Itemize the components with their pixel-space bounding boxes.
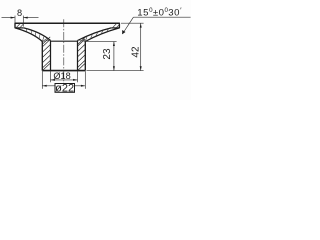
dim 22: extension lines below	[42, 71, 85, 89]
dim 8: dimension line tails	[2, 17, 15, 19]
hatching hub wall right	[78, 37, 85, 70]
left rim bottom	[15, 27, 24, 29]
right rim outer edge	[118, 23, 120, 28]
hole wall left	[50, 41, 52, 71]
right cone inner line	[78, 28, 112, 41]
svg-text:Ø18: Ø18	[53, 71, 70, 81]
hub outer wall right	[84, 42, 86, 71]
dim 23: extension line	[87, 41, 117, 43]
svg-text:42: 42	[130, 46, 141, 58]
svg-text:150±0030′: 150±0030′	[137, 5, 182, 18]
hatching right wing	[79, 29, 109, 42]
hatching hub wall left	[43, 37, 51, 71]
hatching left wing	[26, 29, 50, 42]
centerline	[63, 19, 65, 92]
dim 42: dimension line	[140, 23, 142, 70]
angle leader line	[122, 17, 133, 34]
dim 42: top extension line	[121, 22, 144, 24]
dim 18: dimension line	[51, 79, 78, 81]
right cone outer line	[85, 28, 119, 42]
hub outer wall left	[41, 42, 43, 71]
dim 8: arrowheads	[11, 17, 15, 19]
hole back edge line	[51, 40, 78, 42]
dim 22: text	[55, 83, 75, 95]
dim 8: extension lines	[2, 16, 39, 27]
hatching right rim block	[113, 24, 120, 28]
bottom extension line (shared)	[87, 70, 144, 72]
dim 22: arrowheads	[42, 85, 46, 87]
svg-text:ø22: ø22	[55, 83, 74, 95]
dim 18: extension lines below	[51, 71, 78, 82]
dim 42: arrowheads	[140, 23, 142, 27]
left cone inner line	[24, 28, 51, 41]
svg-text:23: 23	[102, 48, 113, 60]
bottom line	[42, 70, 85, 72]
angle dim underline	[133, 16, 190, 18]
hatching left rim block	[16, 24, 23, 28]
dim 23: dimension line	[113, 42, 115, 71]
svg-text:8: 8	[17, 8, 22, 18]
angle leader arrowhead	[122, 30, 125, 34]
left cone outer line	[15, 28, 42, 42]
hole wall right	[77, 41, 79, 71]
dim 18: arrowheads	[51, 79, 55, 81]
right rim bottom	[111, 27, 120, 29]
top surface line	[15, 22, 120, 24]
left rim outer edge	[14, 23, 16, 28]
dim 22: dimension line	[42, 85, 85, 87]
dim 23: arrowheads	[113, 42, 115, 46]
